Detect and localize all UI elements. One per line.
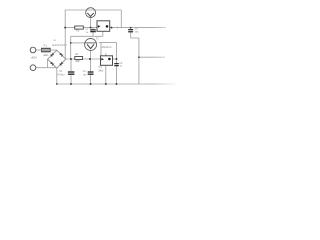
- regulator IC1 box: [101, 56, 113, 66]
- capacitor C2: [90, 29, 96, 32]
- svg-text:7805: 7805: [98, 70, 104, 73]
- wire C2 lower lead: [92, 32, 94, 36]
- wire top-loop right vertical: [120, 10, 122, 28]
- wire T2 collector loop: [99, 42, 117, 44]
- wire V1 vertical: [70, 36, 72, 59]
- bridge rectifier B1: [48, 50, 66, 68]
- diode D-botleft: [50, 62, 54, 66]
- wire top rail: [65, 9, 121, 11]
- wire ground vertical: [138, 38, 140, 84]
- capacitor C3: [88, 71, 94, 75]
- node ground rail C5: [116, 83, 118, 85]
- wire C4 stub: [130, 28, 132, 29]
- svg-text:AC IN: AC IN: [31, 57, 36, 60]
- node ground rail C3: [90, 83, 92, 85]
- capacitor C5: [114, 63, 119, 66]
- diode D-botright: [59, 62, 63, 66]
- terminal AC1: [30, 47, 36, 53]
- meter M2 top box: [97, 21, 110, 32]
- node T1 emitter junction: [90, 27, 92, 29]
- transistor T1: [86, 8, 96, 18]
- node ground rail bridge: [56, 83, 58, 85]
- wire IC1 top stub: [105, 53, 107, 56]
- wire ground rail: [57, 83, 176, 85]
- wire C4 lower elbow: [131, 32, 139, 38]
- wire C1 upper lead: [70, 59, 72, 71]
- diode D-topright: [59, 53, 63, 57]
- wire C3 lower lead: [116, 66, 118, 84]
- node collector loop tap: [116, 26, 118, 28]
- node bridge plus: [70, 58, 72, 60]
- svg-text:B40C3200: B40C3200: [53, 44, 68, 47]
- wire C2 stub: [92, 28, 94, 30]
- resistor R2: [75, 26, 84, 29]
- node output minus tap: [138, 56, 140, 58]
- wire fuse to bridge top: [50, 49, 57, 51]
- node T2 emitter junction: [89, 58, 91, 60]
- wire M2 bottom lead: [102, 31, 104, 36]
- wire T1 emitter lead: [90, 17, 92, 27]
- svg-text:3A15: 3A15: [43, 54, 49, 57]
- capacitor C1: [68, 71, 75, 75]
- diode D-topleft: [50, 53, 54, 57]
- resistor R1: [75, 57, 83, 60]
- wire mid rail: [65, 58, 100, 60]
- wire left vertical: [64, 10, 66, 59]
- wire C3b lower lead: [90, 75, 92, 84]
- svg-text:2N3055: 2N3055: [102, 46, 112, 49]
- wire loop right edge upper: [116, 43, 118, 63]
- node input-rail left: [64, 27, 66, 29]
- node ground rail IC1: [105, 83, 107, 85]
- wire terminal1 to fuse: [36, 49, 42, 51]
- node IC1 output: [116, 58, 118, 60]
- wire IC1 ground lead: [105, 65, 107, 84]
- svg-text:IC1: IC1: [98, 66, 103, 69]
- svg-text:0R82: 0R82: [75, 60, 80, 63]
- svg-text:4700u: 4700u: [57, 74, 65, 77]
- node ground rail C1: [70, 83, 72, 85]
- terminal AC2: [30, 65, 36, 71]
- wire AC2 riser to bridge left vertex: [47, 59, 49, 67]
- wire T2 base: [71, 42, 85, 44]
- node output junction: [111, 27, 113, 29]
- wire output minus: [139, 56, 165, 58]
- node C4 tap: [130, 27, 132, 29]
- svg-text:F1: F1: [44, 45, 48, 48]
- fade overlay right edge: [153, 0, 180, 112]
- wire T2 emitter lead: [90, 51, 92, 60]
- wire input rail: [65, 27, 97, 29]
- wire IC1 output pin: [113, 58, 117, 60]
- wire bridge bottom lead: [56, 68, 58, 84]
- fuse F1: [42, 48, 51, 52]
- wire output plus: [110, 27, 166, 29]
- wire C1 lower lead: [70, 75, 72, 84]
- capacitor C4: [128, 29, 133, 32]
- wire B meter bottom return: [71, 35, 103, 37]
- wire terminal2 to bridge left: [36, 67, 57, 69]
- transistor T2: [85, 39, 97, 51]
- wire loop left edge: [100, 43, 102, 56]
- node T2 base tap: [70, 42, 72, 44]
- wire C3b upper lead: [90, 59, 92, 71]
